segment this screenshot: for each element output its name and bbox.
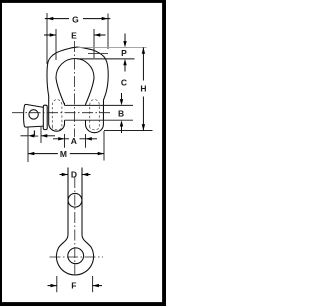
pin horizontal centerline	[12, 112, 110, 114]
svg-text:G: G	[72, 14, 79, 24]
pin shaft top line	[65, 104, 134, 106]
dimension B	[120, 120, 123, 133]
dimension D	[60, 173, 91, 176]
side view shank	[56, 168, 93, 275]
svg-text:L: L	[33, 129, 38, 139]
dimension E	[44, 29, 106, 60]
svg-text:E: E	[71, 30, 77, 40]
svg-text:H: H	[140, 84, 146, 94]
shackle bow inner arch	[56, 59, 94, 105]
svg-text:F: F	[71, 281, 76, 291]
shackle bow outer outline	[47, 47, 108, 133]
dimension H	[104, 47, 153, 130]
pin collar	[43, 105, 47, 129]
side view vertical centerline	[74, 177, 76, 277]
svg-text:A: A	[71, 136, 77, 146]
dimension M	[28, 131, 104, 161]
front view vertical centerline	[74, 41, 76, 137]
dimension P extension lines	[78, 46, 147, 48]
pin shaft bottom line	[65, 119, 134, 121]
side view horizontal centerline	[50, 256, 104, 258]
dimension L	[21, 127, 56, 162]
border frame	[0, 0, 166, 306]
svg-text:M: M	[60, 149, 67, 159]
side view bow section circle	[68, 193, 82, 207]
svg-text:B: B	[118, 109, 124, 119]
left ear hidden thread dashed lines	[52, 99, 99, 129]
short reference line right shoulder	[88, 53, 108, 55]
shackle right ear	[78, 47, 109, 133]
dimension C arrows	[120, 93, 123, 105]
pin head circle	[29, 110, 38, 119]
dimension F	[48, 276, 103, 292]
dimension G	[45, 13, 111, 64]
right ear hidden thread dashed lines	[90, 99, 100, 129]
svg-text:P: P	[121, 48, 127, 58]
screw pin head	[24, 104, 48, 129]
dimension A	[53, 134, 97, 148]
dimension P arrows	[123, 34, 126, 72]
side view pin hole circle	[68, 248, 84, 264]
svg-text:C: C	[121, 77, 127, 87]
svg-text:D: D	[71, 170, 77, 180]
